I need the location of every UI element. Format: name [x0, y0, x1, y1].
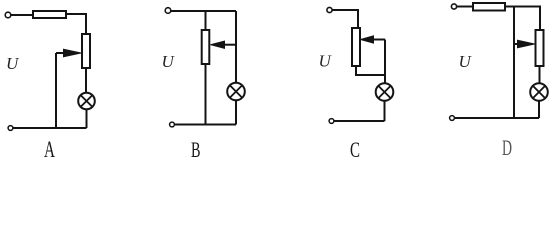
wire (wiper to bottom, A)	[55, 53, 57, 128]
wire (rheostat bottom jog, C)	[356, 66, 385, 75]
svg-text:U: U	[319, 52, 333, 71]
svg-text:C: C	[350, 137, 360, 158]
rheostat R (B)	[202, 30, 210, 64]
wire (top, D)	[505, 7, 540, 31]
rheostat R2 (A)	[82, 34, 90, 68]
svg-text:D: D	[502, 135, 512, 158]
wiper arrow (B)	[224, 44, 236, 46]
wire (bottom, C)	[334, 120, 385, 122]
wire	[538, 101, 540, 118]
resistor R1 (D)	[473, 3, 505, 11]
wiper wire (D)	[513, 7, 515, 119]
terminal (D top)	[451, 4, 456, 9]
terminal (D bottom)	[450, 116, 455, 121]
wire	[384, 101, 386, 121]
lamp L (D)	[530, 83, 548, 101]
wire (right rail, B)	[235, 11, 237, 83]
terminal (B top)	[165, 8, 171, 14]
wire (arrow bend to lamp, C)	[384, 40, 386, 84]
wire (bottom, B)	[175, 124, 237, 126]
terminal (C top)	[327, 7, 332, 12]
terminal (C bottom)	[329, 119, 334, 124]
wire (top, C)	[332, 10, 358, 28]
terminal (A bottom)	[8, 126, 13, 131]
circuit D	[450, 3, 548, 160]
svg-text:U: U	[162, 52, 176, 71]
svg-text:U: U	[459, 52, 473, 71]
wire	[539, 66, 541, 83]
lamp L (B)	[227, 83, 245, 101]
circuit A	[5, 11, 95, 162]
resistor R1 (A)	[33, 11, 66, 18]
wire (junction to rheostat top, B)	[205, 11, 207, 30]
terminal (B bottom)	[170, 122, 175, 127]
svg-text:A: A	[44, 137, 55, 158]
lamp L (C)	[376, 83, 394, 101]
wire (top, B)	[171, 10, 236, 12]
wire	[205, 64, 207, 125]
wire	[11, 14, 33, 16]
wiper arrow (D)	[514, 43, 519, 45]
wire (bottom, D)	[455, 117, 540, 119]
rheostat R2 (D)	[536, 30, 544, 66]
rheostat R (C)	[352, 28, 360, 66]
lamp L (A)	[78, 93, 95, 110]
wire	[235, 100, 237, 124]
svg-text:B: B	[191, 137, 201, 158]
svg-text:U: U	[6, 54, 20, 73]
wiper arrow (C)	[373, 39, 385, 41]
circuit B	[162, 8, 245, 162]
wiper arrow (A)	[56, 52, 66, 54]
wire	[457, 6, 474, 8]
wire	[86, 109, 88, 128]
wire (bottom, A)	[13, 127, 87, 129]
terminal (A top)	[5, 12, 11, 18]
wire	[85, 68, 87, 93]
wire	[66, 14, 86, 34]
circuit C	[319, 7, 394, 162]
